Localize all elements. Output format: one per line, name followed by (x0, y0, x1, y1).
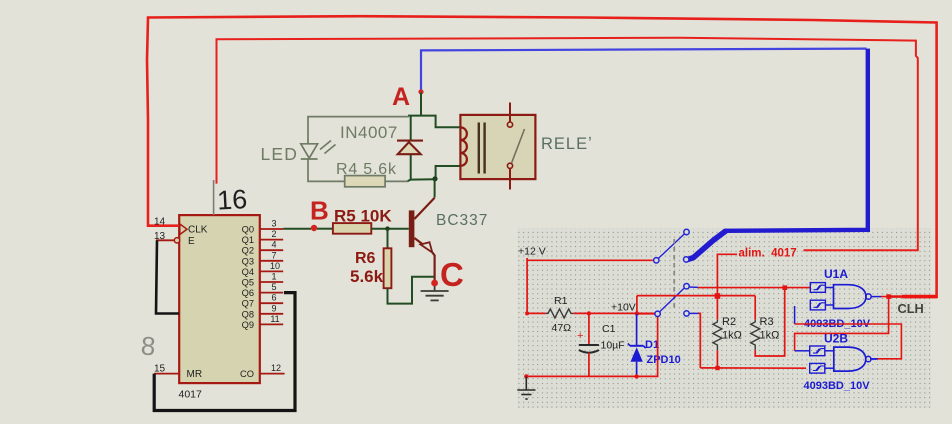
svg-text:9: 9 (271, 303, 276, 313)
wire green node A down (420, 93, 422, 116)
wire red ground rail left (526, 316, 657, 376)
diode D3 IN4007 symbol (397, 141, 423, 155)
node junction square alim (715, 293, 721, 299)
svg-text:+12 V: +12 V (518, 246, 546, 258)
svg-text:B: B (310, 196, 329, 226)
output pins Q0-Q9 wires (260, 229, 285, 374)
svg-text:Q6: Q6 (242, 288, 254, 298)
pin 13 bubble (174, 238, 179, 243)
svg-text:Q4: Q4 (242, 267, 254, 277)
svg-text:+: + (577, 330, 583, 342)
resistor R2 zigzag (713, 320, 722, 351)
node dot D1 +10V junction (635, 311, 639, 315)
svg-text:12: 12 (271, 363, 281, 373)
node A dot (418, 89, 423, 94)
svg-text:5.6k: 5.6k (350, 267, 384, 286)
transistor Q1 emitter with arrow (414, 238, 428, 249)
gate U2B input1 schmitt box (810, 346, 825, 356)
gate U1A output bubble (866, 294, 871, 299)
wire red CLH thin (881, 296, 903, 298)
wire red +10V riser to alim line (636, 296, 638, 314)
wire emitter down to node C (433, 253, 435, 281)
Q labels inside (240, 225, 254, 380)
wire red CLH thick to outer loop (902, 295, 938, 299)
gate U1A input1 schmitt box (810, 283, 825, 293)
svg-text:14: 14 (154, 217, 166, 228)
svg-text:7: 7 (271, 250, 276, 260)
node dot ground rail left end (524, 374, 528, 378)
svg-text:10µF: 10µF (601, 340, 625, 352)
svg-text:U2B: U2B (824, 332, 848, 346)
wire thin blue from node A to top right (421, 49, 867, 91)
ground symbol proteus (517, 376, 535, 399)
olive loop LED bottom wire to R4 (308, 159, 345, 181)
svg-text:R1: R1 (554, 295, 568, 307)
capacitor C1 plates (579, 344, 599, 346)
switch SW1 lever (659, 234, 685, 258)
svg-text:Q9: Q9 (242, 320, 254, 330)
wire red R2 top lead (716, 298, 718, 320)
svg-text:3: 3 (271, 219, 276, 229)
wire green junction down to collector (434, 179, 436, 198)
switch SW1 throw contact bottom blue wire start (684, 257, 689, 262)
gate U2B input stubs (825, 350, 834, 352)
svg-text:4: 4 (271, 240, 276, 250)
wire green relay coil bottom to junction (436, 166, 461, 179)
ground below node C (421, 286, 449, 300)
svg-text:15: 15 (154, 364, 166, 375)
wire red R2 bottom lead (716, 350, 718, 368)
diode D3 IN4007 leads (410, 116, 412, 141)
pin number labels (270, 219, 281, 374)
diode D1 zener symbol (630, 345, 644, 347)
node dot +12V/R1 corner (525, 311, 529, 315)
svg-text:BC337: BC337 (436, 212, 488, 229)
relay terminal stubs (509, 103, 511, 123)
svg-text:R5 10K: R5 10K (334, 207, 392, 226)
gate U1A output stub (871, 296, 881, 298)
switch SW2 throw contact lower (684, 311, 689, 316)
resistor R3 zigzag (751, 320, 760, 351)
svg-text:Q3: Q3 (242, 256, 254, 266)
wire red C1 bottom lead (588, 353, 590, 377)
switch SW1 throw contact top (684, 229, 689, 234)
olive loop LED box top wire (308, 117, 409, 144)
svg-text:RELEʼ: RELEʼ (541, 135, 593, 153)
node C dot (431, 280, 438, 287)
svg-text:IN4007: IN4007 (340, 123, 398, 142)
relay core bars (478, 123, 480, 174)
wire blue SW2 throw lower stub (689, 312, 698, 314)
svg-text:1: 1 (271, 272, 276, 282)
svg-text:4093BD_10V: 4093BD_10V (804, 380, 871, 392)
node dot D1 ground (634, 374, 638, 378)
transistor Q1 collector (414, 198, 434, 219)
switch SW2 lower pole contact (655, 311, 660, 316)
svg-text:8: 8 (140, 330, 157, 361)
svg-text:C: C (440, 256, 464, 293)
wire inner red loop alim4017 to pin16 (217, 38, 918, 251)
svg-text:CLH: CLH (898, 301, 924, 316)
wire olive R4 to junction (385, 180, 408, 182)
svg-text:Q2: Q2 (242, 246, 254, 256)
relay switch contacts (507, 122, 512, 127)
wire red C1 top lead (588, 313, 590, 344)
svg-text:ZPD10: ZPD10 (647, 354, 681, 366)
wire red alim stub up to label (717, 254, 737, 295)
svg-text:1kΩ: 1kΩ (722, 330, 742, 342)
wire feedback U2B output to U1A input2 (794, 306, 796, 324)
svg-text:U1A: U1A (824, 267, 848, 281)
svg-text:CO: CO (240, 369, 254, 379)
wire feedback U1A output to U2B input1 (795, 297, 889, 351)
svg-text:4017: 4017 (179, 389, 203, 401)
wire blue SW2 throw upper stub (689, 286, 698, 288)
relay coil arcs (461, 127, 467, 165)
svg-text:Q7: Q7 (242, 299, 254, 309)
svg-text:Q5: Q5 (242, 278, 254, 288)
LED D2 symbol (301, 141, 336, 160)
gate U1A NAND body (834, 285, 867, 309)
svg-text:5: 5 (271, 282, 276, 292)
black wire pin13 to pin8 (156, 240, 179, 313)
relay RL1 box (460, 115, 535, 179)
svg-text:6: 6 (271, 293, 276, 303)
svg-text:11: 11 (270, 314, 279, 324)
node dot C1 junction (587, 311, 591, 315)
switch SW1 upper pole contact (654, 258, 659, 263)
wire green junction down to R6 (387, 229, 389, 249)
node dot R2 ground junction (715, 366, 719, 370)
resistor R4 body (345, 176, 385, 187)
pin 14 CLK wire red (148, 225, 179, 227)
svg-text:+10V: +10V (611, 302, 636, 314)
svg-text:E: E (188, 236, 195, 247)
svg-text:alim. 4017: alim. 4017 (739, 248, 797, 260)
wire green bottom horizontal diode to junction (407, 179, 435, 181)
switch mechanical dashed link (673, 239, 675, 310)
svg-text:2: 2 (271, 229, 276, 239)
node junction collector dot (432, 176, 437, 181)
wire outer red loop CLH to CLK pin14 (147, 16, 937, 296)
switch SW2 lever (660, 288, 685, 312)
wire red +12V down to R1 (527, 260, 546, 313)
pin 15 MR wire (154, 373, 179, 375)
node base R6 junction dot (385, 226, 390, 231)
gate U1A input stubs (825, 287, 833, 289)
wire red R1 to +10V node (573, 312, 654, 314)
node junction square R3 feedback (782, 285, 787, 290)
diode D1 zener cathode lead blue (636, 314, 638, 346)
svg-text:Q0: Q0 (242, 225, 254, 235)
svg-text:Q1: Q1 (242, 235, 254, 245)
svg-text:MR: MR (187, 369, 203, 380)
svg-text:R6: R6 (355, 250, 376, 267)
wire red alim net horizontal (637, 295, 755, 297)
resistor R1 zigzag (546, 309, 574, 318)
wire green top horizontal to relay coil (408, 116, 461, 128)
svg-text:CLK: CLK (188, 225, 208, 236)
gate U2B output stub (871, 358, 877, 360)
svg-text:A: A (392, 83, 410, 111)
IC U3 4017 body (179, 215, 260, 383)
pin 16 VDD stub (213, 180, 215, 215)
svg-text:Q8: Q8 (242, 309, 254, 319)
gate U1A input2 schmitt box (810, 300, 825, 310)
wire red SW2 upper throw to U1A input1 (698, 287, 810, 289)
node junction square U1A output (886, 294, 891, 299)
svg-text:R2: R2 (722, 316, 736, 328)
CLK input triangle (180, 224, 187, 235)
wire green node B to R5 (317, 228, 333, 230)
gate U2B input2 schmitt box (810, 363, 825, 373)
wire red ground rail right (700, 367, 806, 369)
gate U2B NAND body (834, 347, 866, 371)
svg-text:1kΩ: 1kΩ (760, 330, 780, 342)
wire green R6 bottom to emitter node (388, 277, 435, 304)
diode D1 anode lead (636, 362, 638, 376)
relay switch lever (512, 129, 525, 163)
svg-text:13: 13 (154, 231, 166, 242)
svg-text:16: 16 (216, 184, 248, 216)
wire red +12V rail (527, 258, 653, 260)
svg-text:LED: LED (261, 144, 299, 164)
switch SW2 throw contact upper (684, 284, 689, 289)
svg-text:10: 10 (270, 261, 280, 271)
pin 13 E wire (156, 239, 175, 241)
resistor R5 body (333, 223, 371, 234)
wire thick blue annotation down right side to switch (688, 49, 868, 260)
svg-text:C1: C1 (602, 323, 616, 335)
gate U2B output bubble (866, 356, 871, 361)
resistor R6 body (384, 248, 392, 288)
wire red R3 bottom loop to feedback junction (755, 290, 785, 356)
node B dot (311, 225, 317, 231)
black wire MR loop to Q6 (154, 293, 295, 411)
svg-text:47Ω: 47Ω (552, 322, 572, 334)
wire green R5 to base (371, 228, 409, 230)
transistor Q1 BC337 base bar (409, 210, 415, 247)
wire red +10V to switch pole (637, 313, 655, 315)
svg-text:R4 5.6k: R4 5.6k (336, 161, 397, 178)
svg-text:R3: R3 (760, 316, 774, 328)
wire red SW2 lower throw down to ground rail (699, 313, 701, 368)
proteus screenshot area (518, 228, 932, 408)
wire red R3 top lead (754, 296, 756, 320)
wire green Q0 to node B (283, 228, 311, 230)
